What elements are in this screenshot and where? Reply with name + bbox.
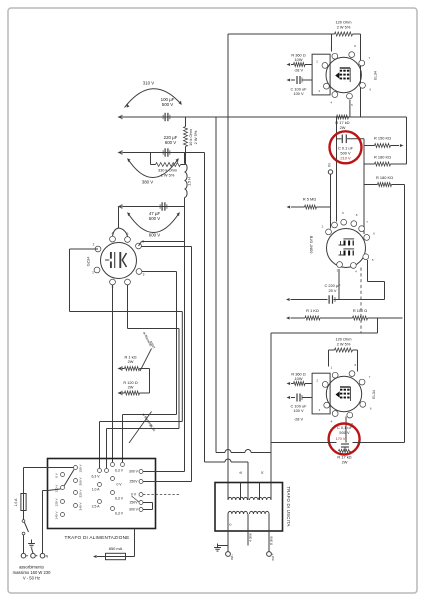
svg-text:6,3 V: 6,3 V <box>92 475 101 479</box>
svg-text:7: 7 <box>368 56 370 60</box>
wire plate rail middle tube <box>363 139 365 234</box>
svg-text:2,5 A: 2,5 A <box>92 505 100 509</box>
svg-text:2: 2 <box>322 224 324 228</box>
svg-text:R 100 Ω: R 100 Ω <box>353 308 367 313</box>
capacitor C 100uF 100V (top) <box>287 76 313 96</box>
svg-text:2W: 2W <box>340 125 346 130</box>
power transformer box <box>48 459 156 541</box>
dashed ground bus <box>360 268 362 334</box>
voltage arc 600 V <box>128 213 180 238</box>
voltage arc 310 V <box>125 81 182 108</box>
HV secondary terminals <box>129 470 143 512</box>
svg-text:110 V: 110 V <box>54 484 58 493</box>
resistor 120 Ohm 2W 5% (top) <box>335 20 361 37</box>
svg-text:6: 6 <box>373 232 375 236</box>
svg-text:125 V: 125 V <box>54 498 58 507</box>
svg-text:5: 5 <box>351 103 353 107</box>
svg-text:4: 4 <box>355 270 357 274</box>
svg-text:N: N <box>46 555 49 559</box>
wire bottom section frame <box>271 333 378 483</box>
svg-text:EL34: EL34 <box>148 424 156 433</box>
svg-text:100 V: 100 V <box>293 408 304 413</box>
cathode bypass C 220uF 25V <box>286 283 385 304</box>
svg-text:2: 2 <box>317 378 319 382</box>
wire HV 300V lower to rectifier plate2 <box>142 247 192 482</box>
svg-text:6: 6 <box>370 88 372 92</box>
svg-text:R: R <box>261 471 265 474</box>
svg-text:out -: out - <box>230 554 234 560</box>
primary taps with selector <box>48 464 83 520</box>
wire heater step w1 <box>100 422 183 469</box>
resistor R 17 kOhm 2W (top, on screen line) <box>335 115 349 130</box>
mains terminal earth <box>28 540 37 559</box>
filament winding terminals <box>92 463 125 516</box>
svg-text:-28 V: -28 V <box>294 417 304 422</box>
wire pin7 staircase <box>107 285 180 468</box>
svg-text:6: 6 <box>370 407 372 411</box>
power switch <box>22 511 28 554</box>
svg-text:1,5 H: 1,5 H <box>188 177 192 186</box>
capacitor C 0,1uF 500V coupling (bottom) <box>336 417 353 451</box>
fuse 850 mA <box>93 529 135 560</box>
svg-text:R 150 KΩ: R 150 KΩ <box>374 136 391 141</box>
svg-text:6,3 V: 6,3 V <box>115 512 124 516</box>
resistor R 180 KOhm (lower) <box>364 175 405 187</box>
svg-text:240 V: 240 V <box>78 502 82 511</box>
resistor 330 k Ohm 2 W 5% (parallel loop) <box>151 153 186 178</box>
svg-text:TRAFO DI ALIMENTAZIONE: TRAFO DI ALIMENTAZIONE <box>64 535 129 540</box>
svg-text:170 V: 170 V <box>336 437 346 441</box>
svg-text:310 V: 310 V <box>143 81 155 86</box>
svg-text:8: 8 <box>354 44 356 48</box>
svg-text:1: 1 <box>92 271 94 275</box>
resistor R 150 KOhm <box>364 136 404 148</box>
OT terminal 0 / OUT- <box>214 523 234 560</box>
svg-text:100 V: 100 V <box>293 91 304 96</box>
wire rectifier heater left <box>70 249 99 312</box>
wire node 380V <box>118 150 205 154</box>
wire plate line top <box>228 34 335 483</box>
wire HV 300V to rectifier plate <box>143 471 185 473</box>
svg-text:850 mA: 850 mA <box>109 546 123 551</box>
svg-text:4: 4 <box>331 420 333 424</box>
svg-text:300 V: 300 V <box>129 508 139 512</box>
node B+ bus / screen feed wire <box>118 115 407 119</box>
svg-text:R 5 MΩ: R 5 MΩ <box>303 197 316 202</box>
wire node 600V <box>118 204 185 208</box>
capacitor C 100uF 100V (bottom) <box>287 394 313 422</box>
socket bracket (bottom tube) <box>312 373 330 414</box>
wire HV 250V stubs <box>132 496 153 510</box>
svg-text:TRAFO DI USCITA: TRAFO DI USCITA <box>286 486 291 526</box>
wire cathode pins down <box>339 260 385 300</box>
svg-text:2W: 2W <box>128 384 134 389</box>
capacitor C 0.1uF 500V coupling (top) <box>337 117 365 222</box>
wire heater run lower <box>70 312 183 422</box>
OT secondary winding <box>228 511 269 551</box>
svg-text:8 ohm: 8 ohm <box>270 536 274 545</box>
svg-text:210 V: 210 V <box>340 156 351 161</box>
svg-text:0: 0 <box>229 523 233 525</box>
svg-text:25 V: 25 V <box>328 288 336 293</box>
resistor R 180 KOhm (upper) <box>364 155 407 167</box>
rectifier tube V1 GZ34 <box>86 232 145 290</box>
svg-text:2 W 5%: 2 W 5% <box>337 25 351 30</box>
mains terminal N <box>40 491 48 559</box>
choke inductor L <box>185 153 192 198</box>
resistor R 120 Ohm 2W <box>118 380 150 395</box>
svg-text:EL34: EL34 <box>373 70 378 80</box>
voltage arc 380 V <box>128 159 179 185</box>
svg-text:600 V: 600 V <box>149 233 161 238</box>
svg-text:200 V: 200 V <box>78 477 82 486</box>
svg-text:5: 5 <box>372 258 374 262</box>
output transformer box <box>215 483 291 532</box>
svg-text:9: 9 <box>342 211 344 215</box>
wire rail from 220uF node <box>205 153 249 483</box>
svg-text:assorbimento: assorbimento <box>19 565 45 570</box>
svg-text:6SN7 GTB: 6SN7 GTB <box>310 235 314 253</box>
wire grid line bottom <box>271 442 405 444</box>
OT primary winding <box>228 471 271 500</box>
svg-text:500 V: 500 V <box>149 216 161 221</box>
driver tube V3 6SN7 <box>310 211 376 273</box>
svg-text:2: 2 <box>93 243 95 247</box>
svg-text:1: 1 <box>330 46 332 50</box>
svg-text:1: 1 <box>331 365 333 369</box>
wire rail from 100uF node (B+ to OT center) <box>216 117 271 453</box>
resistor R 5 MOhm <box>287 197 331 210</box>
wire grid pin down to R17k line <box>349 100 351 117</box>
svg-text:massimo 160 W 230: massimo 160 W 230 <box>13 570 51 575</box>
svg-text:8: 8 <box>355 363 357 367</box>
resistor 120 Ohm 2W 5% (bottom) <box>329 337 358 372</box>
svg-text:B: B <box>239 471 243 473</box>
svg-text:4: 4 <box>330 101 332 105</box>
wire B+ vertical rail to rectifier and HV <box>184 198 186 472</box>
resistors R 1 KOhm / R 100 Ohm tail <box>286 308 403 333</box>
svg-text:V - 50 Hz: V - 50 Hz <box>23 576 40 581</box>
svg-text:3: 3 <box>143 273 145 277</box>
wire rectifier plate to B+ rail <box>139 242 185 247</box>
mains rating text <box>13 565 51 581</box>
svg-text:2W: 2W <box>342 460 348 465</box>
wire grid-stop to pin <box>331 34 333 52</box>
svg-text:2 W 5%: 2 W 5% <box>337 342 351 347</box>
svg-text:600 V: 600 V <box>165 140 177 145</box>
wire right corner to resistors <box>349 117 407 164</box>
svg-text:GZ34: GZ34 <box>86 256 91 267</box>
svg-text:8: 8 <box>356 213 358 217</box>
svg-text:0 V: 0 V <box>54 472 58 478</box>
svg-text:0 V: 0 V <box>116 483 122 487</box>
node IN terminal <box>328 163 333 229</box>
capacitor C 47uF 500V <box>149 202 167 221</box>
svg-text:-28 V: -28 V <box>294 68 304 73</box>
wire rectifier cathode Y to 600V node <box>113 207 128 237</box>
capacitor C 220uF 600V <box>163 135 178 157</box>
mains terminal L <box>21 553 28 558</box>
svg-text:2 W 5%: 2 W 5% <box>193 130 198 144</box>
resistor R 360 Ohm 10W (top) <box>287 53 313 73</box>
svg-text:R 180 KΩ: R 180 KΩ <box>374 155 391 160</box>
resistor R 1 kOhm 2W <box>118 354 150 370</box>
wire humdinger vertical <box>149 369 151 394</box>
svg-text:3: 3 <box>319 408 321 412</box>
svg-text:250V: 250V <box>130 480 139 484</box>
svg-text:6,3 V: 6,3 V <box>115 469 124 473</box>
fuse 1,6 A <box>14 494 26 511</box>
svg-text:3: 3 <box>318 89 320 93</box>
power tube V2 EL34 (top) <box>316 44 377 107</box>
wire mains to primary <box>24 468 48 494</box>
svg-text:7: 7 <box>369 375 371 379</box>
wire right rail to lower section <box>404 185 406 443</box>
svg-text:500 V: 500 V <box>339 430 350 435</box>
red highlight circle (top) <box>330 131 362 163</box>
wire pin5 to transformer <box>112 285 114 462</box>
resistor 10 k Ohm 2 W 5% (vertical) <box>184 117 199 153</box>
svg-text:300 V: 300 V <box>129 470 139 474</box>
svg-text:250V: 250V <box>130 501 139 505</box>
OT terminal 8 ohm / OUT+ <box>267 536 275 561</box>
svg-text:140 V: 140 V <box>54 511 58 520</box>
svg-text:10W: 10W <box>295 57 303 62</box>
svg-text:1,6 A: 1,6 A <box>14 498 18 506</box>
svg-text:10W: 10W <box>295 376 303 381</box>
OT tap 4 ohm <box>249 533 253 542</box>
svg-text:6,3 V: 6,3 V <box>115 497 124 501</box>
socket bracket (top tube) <box>312 54 330 95</box>
wire pin3 staircase <box>123 272 177 463</box>
svg-text:out +: out + <box>271 553 275 560</box>
off-page slash ai filamenti EL34 <box>129 412 156 444</box>
off-page slash ai filamenti 6SN7 <box>140 331 156 371</box>
capacitor C 100uF 500V <box>161 97 175 121</box>
power tube V4 EL34 (bottom) <box>317 363 376 426</box>
resistor R 360 Ohm 10W (bottom) <box>287 372 313 386</box>
svg-text:2: 2 <box>316 59 318 63</box>
svg-text:R 180 KΩ: R 180 KΩ <box>376 175 393 180</box>
svg-text:3: 3 <box>336 268 338 272</box>
svg-text:150 V: 150 V <box>78 464 82 473</box>
svg-text:1: 1 <box>330 215 332 219</box>
svg-text:1,0 A: 1,0 A <box>92 488 100 492</box>
svg-text:380 V: 380 V <box>142 180 154 185</box>
wire HV 0V dashed ground <box>143 494 181 496</box>
wire screen rail top <box>360 34 362 117</box>
red highlight circle (bottom) <box>329 424 360 455</box>
svg-text:EL34: EL34 <box>371 389 376 399</box>
svg-text:IN: IN <box>328 163 332 167</box>
svg-text:7: 7 <box>366 220 368 224</box>
svg-text:4 ohm: 4 ohm <box>249 533 253 542</box>
svg-text:R 1 KΩ: R 1 KΩ <box>306 308 319 313</box>
svg-text:220 V: 220 V <box>78 489 82 498</box>
svg-text:2W: 2W <box>128 359 134 364</box>
resistor R 17 kOhm 2W (bottom) <box>337 449 351 464</box>
svg-text:500 V: 500 V <box>162 102 174 107</box>
